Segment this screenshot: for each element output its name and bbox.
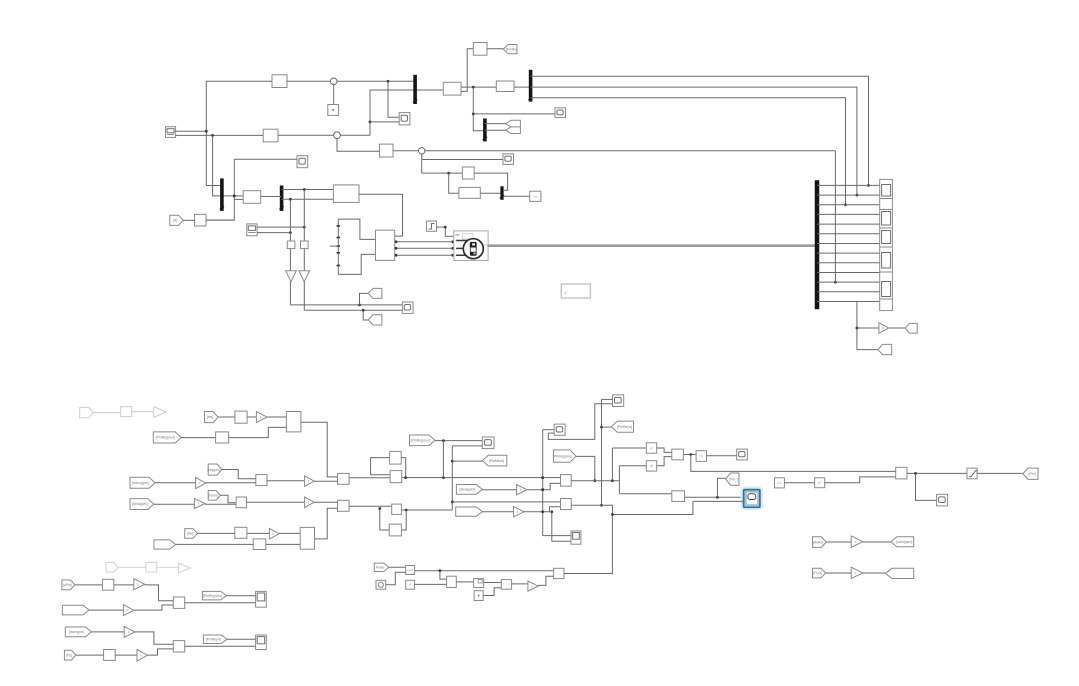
- junction: [358, 304, 361, 307]
- port column line: [330, 219, 340, 274]
- wire main A: [402, 477, 561, 479]
- wire branch to scope bottom: [552, 512, 571, 542]
- block A loop upper: [390, 451, 402, 464]
- junction: [611, 513, 614, 516]
- from tag dwm: [65, 627, 91, 637]
- wire hook: [548, 432, 554, 434]
- wire: [435, 440, 482, 442]
- wire faded: [118, 566, 146, 568]
- goto tag Pm_: [726, 473, 739, 485]
- block sqrt: [696, 451, 706, 462]
- wire node down: [333, 85, 335, 105]
- wire: [863, 572, 886, 574]
- junction: [611, 479, 614, 482]
- sum B: [338, 500, 350, 511]
- block R1a: [235, 411, 247, 423]
- goto tag r2: [878, 344, 892, 354]
- wire main B: [401, 509, 452, 511]
- wire hook to scope T in2: [548, 404, 612, 440]
- block J1: [462, 167, 474, 179]
- wire: [857, 349, 878, 351]
- from tag faded2: [106, 562, 118, 572]
- goto tag g2: [506, 127, 521, 134]
- from tag uPm: [62, 580, 75, 590]
- block faded2: [146, 562, 157, 572]
- block R1b: [216, 432, 229, 443]
- junction: [716, 496, 719, 499]
- block L2: [253, 539, 266, 550]
- junction: [362, 309, 365, 312]
- gain L row1: [269, 529, 279, 539]
- junction: [439, 569, 442, 572]
- wire: [393, 150, 418, 152]
- bus bar B2: [528, 70, 532, 102]
- junction: [395, 254, 398, 257]
- sum L3: [173, 597, 184, 608]
- junction: [451, 501, 454, 504]
- block L3a: [102, 579, 113, 590]
- block TL2: [263, 129, 278, 142]
- block L4a: [104, 650, 116, 661]
- wire: [198, 532, 235, 534]
- wire to sum E in2: [825, 477, 896, 483]
- junction: [541, 488, 544, 491]
- wire long right: [425, 150, 836, 152]
- from tag Pus: [813, 568, 826, 578]
- goto tag dn: [368, 315, 382, 325]
- bus rung 3: [817, 204, 880, 206]
- wire: [205, 503, 236, 505]
- wire down to sum L4: [135, 632, 173, 644]
- wire CK3 out: [564, 573, 612, 575]
- junction: [289, 231, 292, 234]
- block TL3: [380, 144, 394, 157]
- bus rung 11: [817, 281, 880, 283]
- wire to bus1: [337, 80, 415, 82]
- wire to PmMech tag: [452, 460, 482, 462]
- gain right: [879, 323, 889, 334]
- wire meas line2: [304, 309, 402, 311]
- wire clock up: [386, 572, 406, 584]
- wire: [683, 454, 696, 456]
- block J2: [459, 187, 480, 198]
- wire down to scope E: [916, 473, 937, 500]
- junction: [593, 479, 596, 482]
- block TL1: [272, 75, 287, 88]
- wire: [227, 595, 256, 597]
- wire: [287, 80, 330, 82]
- wire u2b to sum D: [657, 457, 672, 466]
- junction: [856, 327, 859, 330]
- wire vertical meas: [206, 159, 234, 220]
- wire loop B left: [380, 509, 389, 531]
- wire tag down: [220, 495, 236, 503]
- wire: [155, 482, 196, 484]
- scope bottom mid: [571, 531, 581, 544]
- sum E: [896, 467, 907, 479]
- wire to sum C: [619, 493, 671, 495]
- wire: [266, 543, 300, 545]
- block A1: [256, 475, 267, 486]
- svg-text:[edroq(pm]: [edroq(pm]: [132, 481, 148, 485]
- wire vertical left: [542, 430, 544, 536]
- source block V1: [166, 127, 176, 138]
- wire: [279, 532, 300, 534]
- sum A: [338, 473, 350, 484]
- svg-text:[PmRe(pmu]: [PmRe(pmu]: [156, 436, 175, 440]
- wire big out down to sum A: [301, 422, 338, 477]
- terminator sq: [328, 105, 339, 116]
- scope S2: [503, 154, 514, 165]
- wire bus2 line2: [531, 87, 857, 195]
- svg-text:[Pm_]: [Pm_]: [729, 477, 738, 481]
- block P: [406, 580, 415, 589]
- from tag blank pill: [456, 507, 483, 516]
- wire to tag dn: [363, 310, 368, 320]
- wire: [314, 480, 337, 482]
- sum C: [672, 491, 685, 502]
- bus rung 5: [817, 223, 880, 225]
- svg-text:[dw]: [dw]: [207, 415, 213, 419]
- wire loop A right: [401, 458, 406, 478]
- block u2 a: [646, 443, 656, 453]
- wire: [76, 654, 104, 656]
- wire J1 out to bus J: [474, 173, 507, 190]
- wire to PQ scope in1: [388, 81, 399, 117]
- from tag pill L: [154, 540, 176, 549]
- junction: [541, 488, 544, 491]
- machine block: [454, 231, 488, 261]
- wire: [89, 609, 123, 611]
- wire: [115, 654, 137, 656]
- wire: [206, 482, 256, 484]
- wire down to main A: [442, 441, 444, 478]
- goto tag PmRe(w: [611, 421, 633, 432]
- block u2 c: [815, 478, 825, 488]
- wire: [349, 477, 390, 479]
- wire up to meas block: [370, 90, 443, 135]
- svg-text:[PmRe(pmu]: [PmRe(pmu]: [203, 594, 222, 598]
- gain B1: [194, 498, 204, 508]
- junction: [550, 510, 553, 513]
- wire: [218, 416, 235, 418]
- from tag PmRe(pmu 2: [410, 435, 436, 446]
- wire: [889, 327, 906, 329]
- bus bar B1: [413, 75, 417, 104]
- junction: [844, 203, 847, 206]
- wire u2a to sum D: [657, 448, 672, 452]
- block CK2: [501, 580, 511, 590]
- gain L1: [517, 485, 527, 495]
- wire: [227, 638, 256, 640]
- svg-text:m: m: [484, 244, 486, 247]
- block A main: [390, 471, 402, 483]
- wire: [92, 631, 125, 633]
- wire up to tag Pm_: [717, 478, 725, 497]
- from tag PmRe L4: [203, 635, 227, 644]
- wire node3 down: [421, 154, 423, 173]
- junction: [472, 113, 475, 116]
- wire stub to block: [234, 198, 243, 200]
- wire main mid: [571, 480, 619, 482]
- wire to u2b: [619, 465, 646, 467]
- junction: [451, 240, 454, 243]
- from tag dw: [205, 412, 218, 423]
- from tag A: [170, 215, 183, 225]
- wire: [826, 572, 852, 574]
- block R1 big: [286, 412, 301, 432]
- bus rung 13: [817, 301, 880, 303]
- junction: [472, 86, 475, 89]
- block CK1: [406, 566, 415, 575]
- goto tag g1: [506, 120, 521, 127]
- mux block: [376, 230, 395, 260]
- block big TF: [333, 185, 359, 203]
- wire: [247, 501, 305, 503]
- wire gain up to block1: [527, 483, 561, 489]
- wire faded: [157, 566, 179, 568]
- svg-text:[Pm]: [Pm]: [1029, 472, 1036, 476]
- junction: [303, 226, 306, 229]
- gain L3b: [123, 605, 133, 616]
- saturation block: [967, 468, 978, 479]
- wire scope in2: [452, 445, 482, 447]
- from tag 8vdq: [130, 499, 154, 510]
- bus rung 12: [817, 291, 880, 293]
- wire: [154, 503, 195, 505]
- gain R1: [256, 412, 267, 423]
- wire: [863, 541, 891, 543]
- svg-text:[8vdq(pm]: [8vdq(pm]: [132, 502, 147, 506]
- wire up to PmRe block: [461, 49, 473, 92]
- wire up to sum L4: [148, 649, 174, 655]
- wire into selected in2: [693, 500, 744, 502]
- from tag dw 2: [185, 529, 198, 539]
- svg-text:[Idq(pm]: [Idq(pm]: [207, 468, 219, 472]
- junction: [541, 510, 544, 513]
- wire: [389, 566, 406, 568]
- block TL4: [195, 214, 207, 226]
- junction: [914, 472, 917, 475]
- node n2: [334, 132, 341, 139]
- junction: [451, 247, 454, 250]
- junction: [404, 476, 407, 479]
- arrow down B: [299, 271, 310, 282]
- wire to tag up: [360, 293, 369, 305]
- gain A2: [305, 476, 315, 487]
- step block: [427, 221, 437, 231]
- wire: [257, 232, 290, 234]
- svg-text:[dwRe]: [dwRe]: [813, 540, 824, 544]
- svg-text:[PmRe(pmu]: [PmRe(pmu]: [553, 454, 572, 458]
- block CK3: [554, 568, 564, 578]
- measurement column: [880, 179, 893, 310]
- wire to scope S1: [473, 113, 555, 115]
- junction: [451, 460, 454, 463]
- wire drop B: [303, 190, 305, 242]
- bus bar B3: [483, 119, 487, 142]
- wire src out2: [176, 134, 264, 136]
- wire mux out3: [395, 254, 454, 256]
- from tag edroq: [130, 477, 155, 488]
- bus rung 6: [817, 233, 880, 235]
- wire: [977, 472, 1023, 474]
- bus rung 1: [817, 184, 880, 186]
- svg-text:Pulse: Pulse: [376, 566, 385, 570]
- wire lower path: [612, 501, 693, 514]
- bus rung 4: [817, 213, 880, 215]
- wire: [257, 226, 304, 228]
- gain faded2: [179, 563, 191, 573]
- svg-text:[Pu.s]: [Pu.s]: [813, 571, 822, 575]
- block B1: [236, 497, 246, 508]
- junction: [867, 184, 870, 187]
- wire: [485, 129, 506, 131]
- junction: [387, 80, 390, 83]
- junction: [395, 240, 398, 243]
- wire to tag PmRe(w: [602, 426, 612, 428]
- bus rung 8: [817, 252, 880, 254]
- saturation block 2: [474, 579, 484, 588]
- node n1: [330, 78, 337, 85]
- selected scope block (blue highlight): [742, 488, 762, 509]
- block M1: [443, 82, 461, 95]
- wire vertical mid: [451, 446, 453, 510]
- block M2: [496, 81, 514, 92]
- junction: [856, 194, 859, 197]
- wire: [278, 134, 334, 136]
- wire: [176, 543, 254, 545]
- wire: [303, 282, 305, 311]
- scope L4: [256, 635, 267, 650]
- scope S3: [297, 156, 308, 168]
- const dot: [478, 595, 480, 597]
- wire sum C to selected block: [685, 496, 744, 498]
- wire down to block: [213, 135, 244, 196]
- block PmRe calc: [473, 43, 487, 56]
- wire: [247, 416, 256, 418]
- wire: [707, 455, 737, 457]
- wire to PQ scope in2: [370, 121, 399, 123]
- gain A1: [196, 478, 206, 489]
- sum D: [672, 449, 684, 460]
- wire src out1: [176, 130, 207, 132]
- scope T: [613, 395, 624, 407]
- node n3: [419, 148, 425, 154]
- gain L2: [514, 507, 524, 518]
- wire: [247, 532, 270, 534]
- svg-text:[uPm]: [uPm]: [63, 583, 72, 587]
- bus bar main: [815, 180, 819, 309]
- wire to scope L3: [185, 602, 256, 604]
- wire to scope L4: [185, 645, 256, 647]
- wire: [289, 249, 291, 271]
- svg-text:[Pu]: [Pu]: [66, 653, 72, 657]
- wire bus J to load: [504, 195, 530, 197]
- junction: [600, 504, 603, 507]
- wire: [206, 219, 234, 221]
- wire to bus: [206, 185, 222, 187]
- scope M: [554, 424, 565, 435]
- wire: [461, 86, 496, 88]
- from tag faded1: [80, 407, 94, 417]
- gain L3a: [134, 579, 145, 590]
- junction: [541, 476, 544, 479]
- wire: [482, 489, 516, 491]
- junction: [378, 507, 381, 510]
- terminator dot: [332, 109, 334, 111]
- junction: [689, 453, 692, 456]
- gain BR1: [851, 536, 863, 548]
- gain B2: [305, 497, 315, 508]
- sum CK: [447, 576, 457, 587]
- wire: [181, 437, 215, 439]
- clock block: [376, 580, 386, 589]
- wire: [314, 501, 337, 503]
- wire faded: [94, 412, 121, 414]
- scope S1: [555, 108, 566, 118]
- junction: [211, 134, 214, 137]
- wire bus2 line3: [531, 98, 846, 205]
- goto tag Pm: [1023, 468, 1038, 479]
- wire step to machine: [437, 227, 454, 236]
- wire up to big block: [229, 427, 287, 437]
- svg-text:[Idom]: [Idom]: [208, 494, 217, 498]
- wire: [303, 249, 305, 271]
- gain L4a: [124, 627, 135, 638]
- wire node2 down: [337, 139, 380, 152]
- wire down to sum CK: [440, 571, 447, 579]
- block J3: [530, 191, 541, 201]
- wire: [267, 416, 286, 418]
- wire: [349, 505, 392, 507]
- wire: [484, 582, 502, 584]
- wire to scope M in1: [543, 429, 555, 431]
- wire faded: [132, 411, 154, 413]
- scope D: [737, 449, 748, 460]
- block load1: [243, 191, 261, 204]
- junction: [442, 439, 445, 442]
- wire gain up to block2: [524, 507, 561, 512]
- wire: [261, 196, 282, 198]
- wire mux out2: [395, 247, 454, 249]
- svg-text:[dwm(pm]: [dwm(pm]: [69, 630, 84, 634]
- wire loop B right: [401, 510, 406, 530]
- junction: [205, 130, 208, 133]
- gain BR2: [851, 567, 863, 578]
- wire: [289, 282, 291, 305]
- goto tag r1: [905, 323, 917, 333]
- wire: [267, 480, 305, 482]
- from tag pulse: [374, 563, 389, 571]
- block u2 b: [646, 461, 656, 471]
- from tag Idom: [208, 491, 220, 501]
- wire bus2 line1: [531, 76, 869, 185]
- from tag PmRe(pmu 3: [553, 450, 576, 462]
- wire split: [618, 466, 620, 494]
- wire bus5 to big block in2: [282, 198, 334, 200]
- wire up to sum L3: [134, 605, 174, 610]
- wire long to sum E: [691, 455, 896, 472]
- wire tag down to main: [576, 456, 595, 480]
- junction: [451, 254, 454, 257]
- svg-text:[dw]: [dw]: [187, 532, 193, 536]
- junction: [541, 476, 544, 479]
- goto tag blank: [886, 568, 914, 578]
- block L1: [235, 527, 247, 538]
- wire big block out loop: [359, 194, 403, 236]
- wire drop A: [289, 199, 291, 241]
